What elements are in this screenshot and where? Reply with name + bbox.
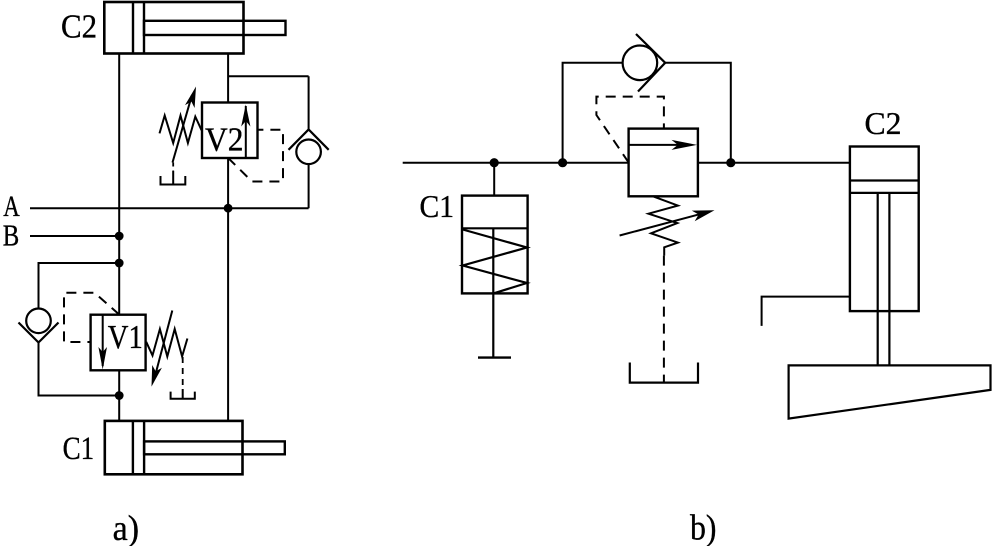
valve V1 spring: [146, 329, 187, 357]
branch to lower check valve: [39, 263, 120, 396]
junction dot B-left wire: [115, 232, 124, 241]
svg-text:V1: V1: [108, 319, 143, 356]
check valve top seat chevron: [289, 130, 329, 150]
valve (b) spring adjust arrow: [620, 213, 705, 236]
check valve bottom seat chevron: [19, 323, 59, 343]
svg-text:C1: C1: [63, 431, 95, 467]
valve V2 spring adjust arrow: [173, 95, 193, 163]
wire left vertical (C2 left port to C1 left port): [118, 54, 120, 421]
junction dot A-V2 branch: [224, 204, 233, 213]
node B line: [30, 235, 119, 237]
valve V1 spring adjust arrow: [155, 311, 173, 379]
main line right segment: [698, 162, 850, 164]
cylinder C2 rod: [144, 21, 286, 35]
cylinder C1 rod: [144, 441, 285, 454]
cylinder C1 piston: [133, 421, 144, 474]
svg-text:b): b): [690, 508, 717, 546]
cylinder C2 (b) rod: [878, 193, 890, 366]
valve (b) flow line with right arrow: [629, 144, 691, 146]
svg-text:B: B: [3, 219, 20, 253]
load wedge: [789, 365, 991, 418]
accumulator C1 piston line: [462, 227, 528, 229]
check valve top (parallel to V2) wire: [308, 76, 310, 208]
valve V1 pilot dashed line: [64, 293, 119, 342]
valve V1 drain symbol: [171, 389, 195, 399]
svg-text:a): a): [113, 508, 140, 546]
valve (b) spring: [649, 196, 678, 255]
main line left segment: [403, 162, 629, 164]
cylinder C2 (b) body: [850, 147, 919, 312]
check valve bottom ball: [26, 309, 51, 334]
valve V2 box: [202, 103, 258, 159]
junction dot check branch upper: [115, 259, 124, 268]
svg-text:C1: C1: [420, 188, 455, 224]
junction dot C1 branch: [490, 158, 499, 167]
accumulator C1 anchor bar: [478, 356, 511, 358]
valve V2 pilot dashed line: [228, 130, 283, 182]
valve (b) drain dashed line: [663, 256, 665, 383]
check valve loop wires: [563, 63, 731, 163]
junction dot check loop left: [558, 158, 567, 167]
valve V1 flow line with down arrow: [102, 315, 104, 366]
accumulator C1 body: [462, 196, 528, 294]
junction dot check loop right: [726, 158, 735, 167]
valve V2 drain symbol: [161, 171, 186, 185]
cylinder C2 body: [104, 2, 243, 54]
wire branch to check valve top: [228, 75, 309, 77]
counterbalance valve box (b): [629, 129, 698, 197]
valve (b) pilot dashed line: [596, 97, 664, 163]
node A line: [30, 207, 309, 209]
valve V1 box: [91, 315, 146, 371]
check valve (b) ball: [623, 46, 658, 81]
check valve (b) seat chevron: [636, 34, 665, 92]
wire right vertical upper (C2 right port to V2): [227, 54, 229, 103]
junction dot check branch lower: [115, 391, 124, 400]
valve V2 drain dashed stem: [172, 163, 174, 172]
accumulator C1 spring: [463, 230, 527, 294]
check valve top ball: [296, 140, 321, 165]
valve V2 flow line with up arrow: [245, 106, 247, 158]
svg-text:C2: C2: [865, 105, 902, 141]
cylinder C2 (b) piston lines: [850, 181, 919, 193]
wire right vertical lower (V2 to C1 right port): [227, 158, 229, 421]
cylinder C2 piston: [133, 2, 144, 54]
valve (b) drain symbol: [630, 363, 698, 383]
svg-text:V2: V2: [205, 122, 244, 159]
cylinder C1 body: [105, 421, 243, 474]
valve V2 spring: [160, 116, 202, 144]
accumulator C1 rod: [492, 228, 494, 357]
svg-text:C2: C2: [61, 8, 97, 45]
accumulator C1 wire: [493, 163, 495, 196]
valve V1 drain dashed stem: [182, 357, 184, 389]
stop bracket: [762, 297, 850, 326]
